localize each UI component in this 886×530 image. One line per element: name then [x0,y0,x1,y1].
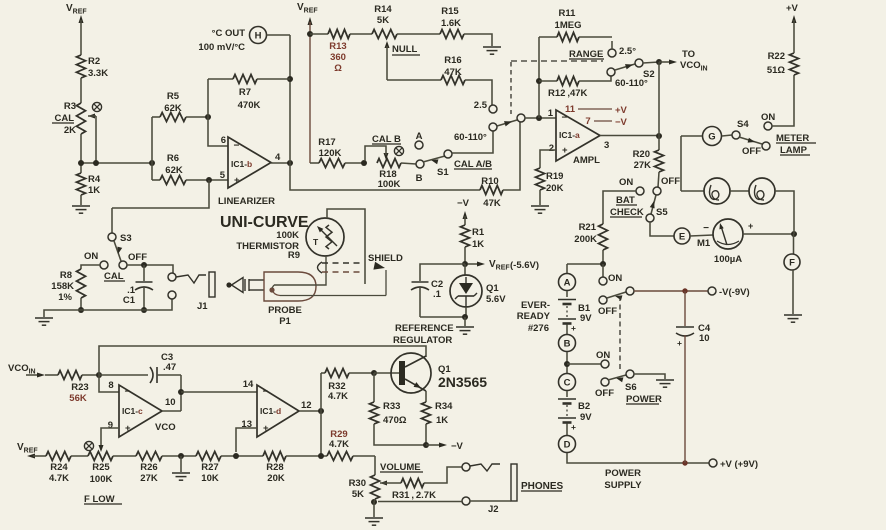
wire zener bottom [465,307,467,317]
resistor R22 [790,53,799,75]
svg-text:R33: R33 [383,401,400,412]
wire R4 to ground [80,195,82,205]
wire G left [681,135,702,137]
svg-text:470K: 470K [238,100,261,111]
terminal +V +9V [709,459,717,467]
svg-text:R3: R3 [64,101,76,112]
wire R14-R15 [397,33,440,35]
probe plug rings [244,279,246,291]
node meter-F junction [791,231,797,237]
wire -V arrow to R1 [463,211,468,219]
svg-text:EVER-: EVER- [521,300,550,311]
svg-text:OFF: OFF [598,306,617,317]
switch S4 arm [739,137,762,144]
svg-text:2.5: 2.5 [474,100,488,111]
lamp 2 [749,178,775,204]
switch S2a common [635,59,643,67]
wire R33 bottom to -V row [374,424,426,445]
svg-text:G: G [708,131,715,142]
svg-text:R26: R26 [140,462,157,473]
svg-text:−: − [263,387,269,398]
svg-text:OFF: OFF [661,176,680,187]
svg-text:+: + [748,221,753,231]
svg-text:2N3565: 2N3565 [438,374,487,390]
svg-text:1%: 1% [58,292,72,303]
resistor R24 [46,452,71,461]
switch S2b arm [497,120,517,126]
wire output down to R10 run [290,163,480,190]
node R6 pin5 [206,177,212,183]
wire meter to F column [743,233,794,235]
svg-text:R7: R7 [239,87,251,98]
svg-text:47K: 47K [483,198,501,209]
svg-text:CAL: CAL [54,113,74,124]
node pin13 junction [233,453,239,459]
svg-text:R16: R16 [444,55,461,66]
capacitor C1 [143,265,145,281]
wire feedback top to Q1 collector [99,346,426,375]
node C1 bottom [141,307,147,313]
svg-text:100K: 100K [90,474,113,485]
svg-text:100 mV/°C: 100 mV/°C [198,42,245,53]
switch S3 top contact [111,208,113,233]
node C4 bottom [682,460,687,465]
wire B1 to B [566,325,568,335]
wire S3 pole to J1 [127,265,173,273]
svg-text:IC1-: IC1- [559,130,575,140]
wire output column x321 [320,373,322,456]
wire D to +V rail [567,453,709,463]
thermistor bottom lead [274,256,326,285]
wire top row y34 [310,33,328,35]
shield arrowhead [373,262,385,270]
wire S1 common to 60-110 contact [452,131,493,153]
svg-text:R17: R17 [318,137,335,148]
ground R19 [531,205,549,207]
resistor R26 [136,452,162,461]
svg-text:62K: 62K [165,165,183,176]
wire R19 to ground [539,190,541,205]
svg-text:+: + [125,423,131,434]
wire R7 left down [207,79,209,117]
terminal F [793,234,795,254]
wire E to meter [690,235,713,236]
svg-text:CHECK: CHECK [610,207,644,218]
node ground junction [178,453,184,459]
svg-text:A: A [564,277,571,288]
wire node to C2 [420,264,465,281]
svg-text:REFERENCE: REFERENCE [395,323,454,334]
svg-text:R10: R10 [481,176,498,187]
svg-text:360: 360 [330,52,346,63]
switch S2a arm [615,64,635,70]
svg-text:10: 10 [165,397,176,408]
terminal -V -9V [708,287,716,295]
wire R1 to node [464,247,466,264]
wire pin2 [540,150,556,168]
wire H to column [267,34,291,36]
wire R2 to R3 [80,78,82,103]
battery B2 cell2 [558,417,576,419]
svg-text:BAT: BAT [616,195,635,206]
svg-text:READY: READY [517,311,551,322]
svg-text:4.7K: 4.7K [49,473,69,484]
svg-text:5K: 5K [352,489,364,500]
terminal E [674,228,690,244]
wire to ground left [44,310,81,317]
svg-text:62K: 62K [164,103,182,114]
svg-text:Ω: Ω [334,63,342,74]
svg-text:(-5.6V): (-5.6V) [510,260,539,271]
node output junction [656,133,662,139]
svg-text:AMPL: AMPL [573,155,600,166]
svg-text:R30: R30 [349,478,366,489]
resistor R27 [196,452,221,461]
svg-text:S3: S3 [120,233,132,244]
wire R31 to J2 tip [424,467,462,483]
wire 2.5 contact up [611,41,613,49]
svg-text:6: 6 [221,135,226,146]
node divider to inputs [149,160,155,166]
svg-text:R1: R1 [472,227,485,238]
probe plug tip [226,282,231,287]
svg-text:R14: R14 [374,4,392,15]
svg-text:5K: 5K [377,15,389,26]
wire feedback column x290 [289,35,291,163]
resistor R20 [655,150,664,172]
R18 wiper bracket [384,153,389,160]
wire VREF2 rail [308,17,313,25]
svg-text:B2: B2 [578,401,590,412]
ground volume [365,517,383,519]
wire R34 to -V row [425,424,427,445]
svg-text:27K: 27K [634,160,652,171]
svg-text:R19: R19 [546,171,563,182]
node wiper junction [93,160,99,166]
svg-text:c: c [138,406,143,416]
wire base [374,372,399,374]
node to-vco [656,59,662,65]
wire between lamps [730,190,749,192]
svg-text:POWER: POWER [626,394,662,405]
R30 wiper [380,481,387,486]
svg-text:+: + [571,323,576,333]
wire C3 to output column [180,375,182,411]
switch S1 common contact [444,150,452,158]
battery B1 cell2 [558,318,576,320]
jack J1 spring [176,275,206,283]
resistor R34 [422,402,431,424]
wire F to ground [792,270,794,314]
svg-text:9V: 9V [580,313,592,324]
svg-text:100µA: 100µA [714,254,742,265]
arrow VCOin [26,374,38,376]
potentiometer R18 CAL B [377,159,401,168]
wire output column x659 [658,62,660,150]
svg-text:R9: R9 [288,250,300,261]
R14 wiper NULL [385,41,390,48]
svg-text:IC1-: IC1- [122,406,138,416]
svg-text:4.7K: 4.7K [328,391,348,402]
battery B2 cell1 [566,391,568,397]
svg-text:R28: R28 [266,462,283,473]
svg-text:R11: R11 [559,8,577,19]
svg-text:d: d [276,406,281,416]
wire pin5 branch down to S3 [112,180,209,208]
resistor R11 [539,36,557,38]
svg-text:5: 5 [220,170,226,181]
svg-text:IC1-: IC1- [231,159,247,169]
terminal B [559,335,576,352]
wire stub to S6a ON [602,264,604,277]
svg-text:C: C [564,377,571,388]
svg-text:470Ω: 470Ω [383,415,407,426]
wire to ground [464,317,466,326]
svg-text:TO: TO [682,49,695,60]
svg-text:4.7K: 4.7K [329,439,349,450]
node C1 top [141,262,147,268]
svg-text:20K: 20K [267,473,285,484]
ground R4 [72,205,90,207]
wire shield return up [385,270,387,296]
zener Q1 5.6V [464,264,466,275]
resistor R19 [536,168,545,190]
svg-text:R31 , 2.7K: R31 , 2.7K [392,490,436,501]
switch S1 arm [423,156,445,162]
wire NULL wiper to R16 [387,79,441,81]
svg-text:60-110°: 60-110° [615,78,648,89]
svg-text:3: 3 [604,140,609,151]
svg-text:F: F [789,257,795,268]
svg-text:SUPPLY: SUPPLY [604,480,642,491]
switch S2b contact 2.5 [489,105,497,113]
wire to ground [180,456,182,472]
svg-text:R13: R13 [329,41,346,52]
transistor Q1 2N3565 [391,353,431,393]
svg-text:B: B [564,338,571,349]
switch S6b common contact [626,370,634,378]
wire input column x152 [151,117,153,180]
svg-text:b: b [247,159,252,169]
switch S6a contact ON [599,277,607,285]
potentiometer R25 F LOW [88,452,113,461]
svg-text:S4: S4 [737,119,749,130]
op-amp IC1-c [119,385,162,437]
svg-text:C1: C1 [123,295,136,306]
wire R20 to S5 OFF [658,172,659,187]
svg-text:D: D [564,439,571,450]
svg-text:RANGE: RANGE [569,49,603,60]
svg-text:R15: R15 [441,6,459,17]
svg-text:.1: .1 [433,289,442,300]
svg-text:200K: 200K [574,234,597,245]
node pin1 [536,115,542,121]
potentiometer R3 CAL 2K [77,103,86,134]
wire ON contact to R8 [81,265,100,269]
resistor R28 [263,452,286,461]
ground regulator [456,326,474,328]
terminal C [559,374,576,391]
switch S2a contact 2.5 [608,49,616,57]
svg-text:R6: R6 [167,153,179,164]
svg-text:METER: METER [776,133,809,144]
node R5 right [205,114,211,120]
svg-text:VCO: VCO [155,422,176,433]
switch S2b contact 60-110 [489,123,497,131]
resistor R5 [152,116,160,118]
svg-text:2K: 2K [64,125,76,136]
svg-text:P1: P1 [279,316,291,327]
resistor R29 [327,452,353,461]
wire R16 to 2.5 contact [465,80,492,105]
wire sleeve to frame [470,500,511,502]
svg-text:R21: R21 [579,222,597,233]
linkage dashed S6 [619,296,621,370]
svg-text:2: 2 [549,143,554,154]
svg-text:Q1: Q1 [486,283,499,294]
svg-text:9: 9 [108,420,113,431]
svg-text:S1: S1 [437,167,449,178]
node volume ground [371,499,377,505]
node pin14 takeoff [178,389,184,395]
svg-text:UNI-CURVE: UNI-CURVE [220,214,309,231]
svg-text:PHONES: PHONES [521,481,564,492]
screw adjust R18 [394,146,403,155]
svg-text:R22: R22 [768,51,785,62]
wire R11 left column [538,37,540,118]
wire R30 bottom [374,499,375,502]
thermistor top lead [327,209,365,284]
wire ON to R22 [772,75,794,126]
svg-text:R2: R2 [88,56,100,67]
potentiometer R14 NULL [372,30,397,39]
svg-text:R24: R24 [50,462,68,473]
terminal D [559,436,576,453]
svg-text:OFF: OFF [595,388,614,399]
svg-text:R23: R23 [71,382,88,393]
switch S6a common contact [626,287,634,295]
svg-text:R25: R25 [92,462,110,473]
switch S5 contact OFF [653,187,661,195]
switch S5 arm [651,195,656,214]
svg-text:60-110°: 60-110° [454,132,487,143]
svg-text:E: E [679,231,685,242]
svg-text:1K: 1K [436,415,448,426]
ground F [784,314,802,316]
svg-text:.47: .47 [163,362,176,373]
wire bottom row to J1 sleeve [81,299,172,310]
svg-text:R34: R34 [435,401,453,412]
arrow VREF -5.6V [468,263,478,265]
svg-text:14: 14 [243,379,254,390]
wire lamp2 to F column [775,191,794,234]
svg-text:-V(-9V): -V(-9V) [719,287,750,298]
svg-text:51Ω: 51Ω [767,65,786,76]
svg-text:POWER: POWER [605,468,641,479]
node IC1-b output [287,160,293,166]
svg-text:ON: ON [84,251,98,262]
svg-text:1K: 1K [472,239,484,250]
svg-text:LINEARIZER: LINEARIZER [218,196,275,207]
svg-text:56K: 56K [69,393,87,404]
svg-text:J1: J1 [197,301,208,312]
wire R3 to R4 [80,134,82,173]
svg-text:+V: +V [615,105,628,116]
wire battery node to A [566,264,568,273]
node output column junction [318,453,324,459]
ground R8 [35,317,53,319]
svg-text:1MEG: 1MEG [555,20,582,31]
node battery mid [564,361,570,367]
switch S6b contact ON [601,360,609,368]
probe body [264,272,316,301]
svg-text:+: + [677,338,682,348]
svg-text:11: 11 [565,104,576,115]
svg-text:ON: ON [619,177,633,188]
resistor R10 [480,186,503,195]
wire B2 to D [566,424,568,436]
svg-text:T: T [313,237,319,247]
svg-text:R8: R8 [60,270,72,281]
node -V junction [423,442,429,448]
svg-text:ON: ON [608,273,622,284]
op-amp IC1-a [556,110,600,161]
svg-text:B: B [416,173,423,184]
wire pin7 -V [594,120,612,122]
switch S6b arm [608,375,626,380]
svg-text:CAL: CAL [104,271,124,282]
ground R15 [483,46,501,48]
svg-text:4: 4 [275,152,281,163]
wire pin13 [236,428,257,452]
wire R21 down [602,250,604,264]
wire VREF down to R2 [79,15,84,23]
switch S6b pole [601,378,609,386]
resistor R12 [539,80,557,82]
node VREF2 junction [307,31,313,37]
svg-text:PROBE: PROBE [268,305,302,316]
switch S3 pole [119,261,127,269]
switch S1 pole B [416,160,424,168]
svg-text:1.6K: 1.6K [441,18,461,29]
resistor R16 [441,76,465,85]
resistor R7 [208,78,233,80]
svg-text:M1: M1 [697,238,711,249]
node IC1-d output [318,408,324,414]
wire S2a to VCO-in node [643,62,659,63]
wire IC1-b output [271,162,290,164]
capacitor C4 [684,291,686,326]
capacitor C3 [99,374,148,376]
resistor R15 [440,30,464,39]
wire S6b to ground [634,374,665,379]
wire IC1-a output [600,135,659,137]
node R12 left [536,78,542,84]
node R3 bottom junction [78,160,84,166]
svg-text:VOLUME: VOLUME [380,462,421,473]
svg-text:°C OUT: °C OUT [212,28,246,39]
wire to ground [373,502,375,517]
wire R22 to +V [792,15,797,23]
svg-text:3.3K: 3.3K [88,68,108,79]
svg-text:R27: R27 [201,462,218,473]
wire R8 bottom [80,298,82,310]
resistor R1 [461,225,470,247]
jack J1 tip contact [168,273,176,281]
svg-text:ON: ON [596,350,610,361]
switch S5 contact ON [636,187,644,195]
jack J2 tip contact [462,463,470,471]
